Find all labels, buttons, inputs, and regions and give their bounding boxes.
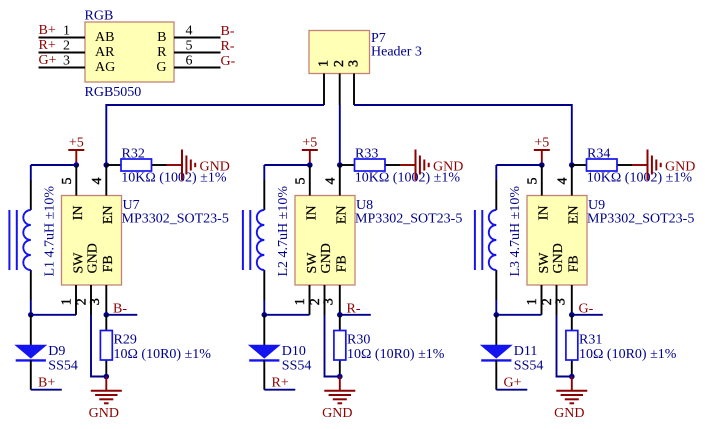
svg-text:4: 4 (324, 178, 339, 185)
svg-text:SW: SW (537, 252, 552, 274)
junction +5/IN (74, 162, 80, 168)
svg-text:R-: R- (221, 39, 235, 54)
U8 pin 4 EN stub (339, 165, 341, 196)
svg-text:1: 1 (293, 298, 308, 305)
svg-text:B+: B+ (38, 375, 55, 390)
inductor L1 core bars (8, 210, 10, 270)
wire P7 pin2 to U8 EN (339, 105, 341, 165)
ground GND (below R30) (339, 377, 341, 391)
junction +5/IN (307, 162, 313, 168)
RGB pin 4 wire (174, 37, 221, 39)
svg-text:B: B (157, 30, 166, 45)
svg-text:1: 1 (60, 298, 75, 305)
svg-text:10Ω (10R0) ±1%: 10Ω (10R0) ±1% (114, 347, 212, 362)
inductor L2 coil (257, 210, 265, 270)
svg-text:R+: R+ (39, 38, 56, 53)
wire +5 to L and IN (264, 164, 310, 166)
svg-text:+5: +5 (534, 135, 549, 150)
diode D11 SS54 (495, 315, 497, 345)
wire GND pin to ground (U8) (325, 315, 340, 377)
svg-text:GND: GND (551, 243, 566, 273)
svg-text:5: 5 (186, 39, 193, 54)
ground GND (at R34) (632, 164, 648, 166)
U8 pin 5 IN stub (309, 165, 311, 196)
svg-text:L1 4.7uH ±10%: L1 4.7uH ±10% (43, 186, 58, 277)
svg-text:1: 1 (525, 298, 540, 305)
svg-text:2: 2 (332, 60, 347, 67)
resistor R31 stubs (571, 315, 573, 331)
U8 pin 2 GND stub (324, 285, 326, 315)
svg-text:Header 3: Header 3 (371, 45, 422, 60)
svg-text:GND: GND (665, 160, 695, 175)
net label R- wire (340, 314, 371, 316)
RGB pin 3 wire (39, 67, 86, 69)
wire L to SW (U9) (495, 300, 497, 315)
svg-text:3: 3 (346, 60, 361, 67)
op-chip U7 MP3302_SOT23-5 body (62, 196, 122, 286)
junction EN node (U8) (337, 162, 343, 168)
P7 pin 2 stub (339, 74, 341, 106)
svg-text:SS54: SS54 (282, 358, 312, 373)
resistor R29 body (100, 331, 112, 361)
svg-text:R: R (157, 45, 167, 60)
U9 pin 3 FB stub (571, 285, 573, 315)
junction EN node (U9) (569, 162, 575, 168)
svg-text:R31: R31 (579, 333, 602, 348)
ground GND (below R31) (571, 377, 573, 391)
ground GND (at R33) (400, 164, 416, 166)
junction ground node (104, 374, 110, 380)
resistor R33 stubs (340, 164, 355, 166)
net label B- wire (106, 314, 137, 316)
junction FB node (569, 312, 575, 318)
U7 pin 5 IN stub (75, 165, 77, 196)
svg-text:G: G (156, 60, 166, 75)
svg-text:G+: G+ (39, 53, 57, 68)
inductor L2 pins (263, 180, 265, 210)
svg-text:10Ω (10R0) ±1%: 10Ω (10R0) ±1% (579, 347, 677, 362)
svg-text:EN: EN (566, 206, 581, 225)
inductor L2 core bars (242, 210, 244, 270)
svg-text:GND: GND (86, 243, 101, 273)
svg-text:SS54: SS54 (514, 358, 544, 373)
svg-text:AR: AR (95, 45, 115, 60)
svg-text:IN: IN (304, 206, 319, 221)
net label B+ wire (31, 389, 62, 391)
svg-text:5: 5 (526, 178, 541, 185)
svg-text:R29: R29 (114, 333, 137, 348)
diode D10 SS54 (263, 315, 265, 345)
resistor R32 body (121, 159, 152, 171)
svg-text:EN: EN (101, 206, 116, 225)
svg-text:1: 1 (63, 24, 70, 39)
op-chip U9 MP3302_SOT23-5 body (527, 196, 587, 286)
RGB LED RGB5050 body (85, 22, 174, 82)
U9 pin 1 SW stub (541, 285, 543, 315)
svg-text:6: 6 (186, 54, 193, 69)
svg-text:D10: D10 (282, 344, 306, 359)
svg-text:RGB5050: RGB5050 (85, 85, 142, 100)
svg-text:R+: R+ (272, 375, 289, 390)
connector P7 body (309, 31, 370, 74)
svg-text:FB: FB (566, 255, 581, 272)
inductor L3 pins (495, 180, 497, 210)
inductor L3 core bars (474, 210, 476, 270)
svg-text:+5: +5 (302, 135, 317, 150)
wire +5 to L and IN (31, 164, 77, 166)
svg-text:B+: B+ (39, 23, 56, 38)
resistor R31 body (566, 331, 578, 361)
svg-text:GND: GND (322, 406, 352, 421)
svg-text:4: 4 (90, 178, 105, 185)
wire P7 pin3 to U9 EN (354, 105, 572, 165)
net label G- wire (572, 314, 603, 316)
svg-text:MP3302_SOT23-5: MP3302_SOT23-5 (587, 211, 694, 226)
svg-text:R33: R33 (355, 147, 378, 162)
P7 pin 1 stub (323, 74, 325, 106)
svg-text:GND: GND (433, 160, 463, 175)
svg-text:GND: GND (200, 160, 230, 175)
U9 pin 2 GND stub (556, 285, 558, 315)
svg-text:SW: SW (72, 252, 87, 274)
resistor R34 stubs (572, 164, 587, 166)
junction ground node (337, 374, 343, 380)
diode D9 SS54 (30, 315, 32, 345)
svg-text:G-: G- (579, 301, 594, 316)
svg-text:3: 3 (63, 54, 70, 69)
net label R+ wire (264, 389, 295, 391)
wire +5 to L and IN (496, 164, 542, 166)
svg-text:L2 4.7uH ±10%: L2 4.7uH ±10% (276, 186, 291, 277)
svg-text:R30: R30 (347, 333, 370, 348)
svg-text:FB: FB (101, 255, 116, 272)
svg-text:GND: GND (89, 406, 119, 421)
ground GND (below R29) (105, 377, 107, 391)
resistor R32 stubs (106, 164, 121, 166)
svg-text:G-: G- (221, 54, 236, 69)
svg-text:3: 3 (88, 298, 103, 305)
U8 pin 3 FB stub (339, 285, 341, 315)
wire P7 pin1 to U7 EN (106, 105, 324, 165)
resistor R29 stubs (105, 315, 107, 331)
U7 pin 3 FB stub (105, 285, 107, 315)
U9 pin 4 EN stub (571, 165, 573, 196)
svg-text:SW: SW (305, 252, 320, 274)
svg-text:FB: FB (334, 255, 349, 272)
svg-text:IN: IN (536, 206, 551, 221)
svg-text:R-: R- (347, 301, 361, 316)
junction FB node (104, 312, 110, 318)
svg-text:MP3302_SOT23-5: MP3302_SOT23-5 (122, 211, 229, 226)
svg-text:D9: D9 (48, 344, 65, 359)
wire GND pin to ground (U7) (91, 315, 106, 377)
junction +5/IN (539, 162, 545, 168)
svg-text:AG: AG (95, 60, 115, 75)
svg-text:AB: AB (95, 30, 114, 45)
U7 pin 1 SW stub (75, 285, 77, 315)
svg-text:5: 5 (60, 178, 75, 185)
svg-text:1: 1 (316, 60, 331, 67)
svg-text:IN: IN (71, 206, 86, 221)
svg-text:3: 3 (321, 298, 336, 305)
U7 pin 2 GND stub (90, 285, 92, 315)
junction L/SW/D (262, 312, 268, 318)
resistor R30 body (334, 331, 346, 361)
svg-text:R32: R32 (122, 147, 145, 162)
svg-text:G+: G+ (504, 375, 522, 390)
svg-text:5: 5 (294, 178, 309, 185)
op-chip U8 MP3302_SOT23-5 body (295, 196, 355, 286)
U8 pin 1 SW stub (309, 285, 311, 315)
net label G+ wire (496, 389, 527, 391)
svg-text:R34: R34 (587, 147, 610, 162)
junction FB node (337, 312, 343, 318)
svg-text:B-: B- (113, 301, 127, 316)
inductor L1 pins (30, 180, 32, 210)
resistor R34 body (587, 159, 618, 171)
svg-text:EN: EN (334, 206, 349, 225)
svg-text:B-: B- (221, 24, 235, 39)
svg-text:MP3302_SOT23-5: MP3302_SOT23-5 (355, 211, 462, 226)
RGB pin 5 wire (174, 52, 221, 54)
svg-text:RGB: RGB (85, 9, 114, 24)
svg-text:SS54: SS54 (48, 358, 78, 373)
resistor R33 body (355, 159, 386, 171)
svg-text:2: 2 (63, 39, 70, 54)
junction EN node (U7) (104, 162, 110, 168)
svg-text:D11: D11 (514, 344, 538, 359)
wire L to SW (U8) (263, 300, 265, 315)
RGB pin 2 wire (39, 52, 86, 54)
svg-text:GND: GND (554, 406, 584, 421)
junction ground node (569, 374, 575, 380)
svg-text:+5: +5 (69, 135, 84, 150)
inductor L3 coil (489, 210, 497, 270)
ground GND (at R32) (167, 164, 183, 166)
RGB pin 1 wire (39, 37, 86, 39)
inductor L1 coil (23, 210, 31, 270)
P7 pin 3 stub (353, 74, 355, 106)
wire L to SW (U7) (30, 300, 32, 315)
svg-text:4: 4 (186, 24, 193, 39)
svg-text:L3 4.7uH ±10%: L3 4.7uH ±10% (508, 186, 523, 277)
svg-text:GND: GND (319, 243, 334, 273)
U7 pin 4 EN stub (105, 165, 107, 196)
U9 pin 5 IN stub (541, 165, 543, 196)
resistor R30 stubs (339, 315, 341, 331)
wire GND pin to ground (U9) (557, 315, 572, 377)
RGB pin 6 wire (174, 67, 221, 69)
junction L/SW/D (494, 312, 500, 318)
junction L/SW/D (28, 312, 34, 318)
svg-text:4: 4 (556, 178, 571, 185)
svg-text:3: 3 (553, 298, 568, 305)
svg-text:10Ω (10R0) ±1%: 10Ω (10R0) ±1% (347, 347, 445, 362)
